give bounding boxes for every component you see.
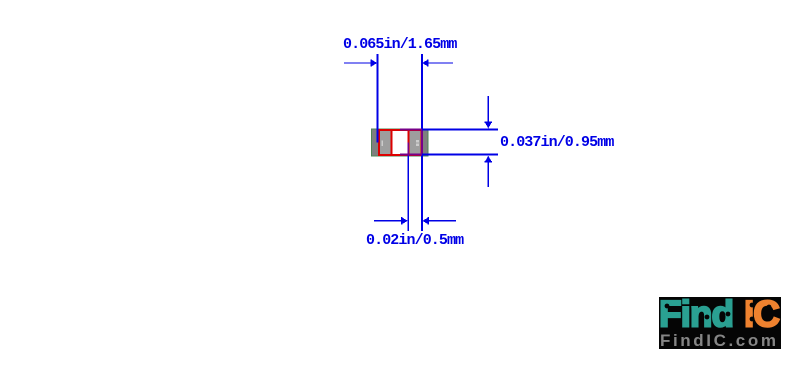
red pad edge at x=408.4 bbox=[407, 130, 409, 155]
extension line gap (x=408.4) purple overlap bbox=[407, 143, 409, 156]
bottom dimension line right segment bbox=[428, 220, 456, 222]
top dimension line left segment bbox=[344, 62, 371, 64]
height extension line top (purple over body, blue to right) bbox=[400, 128, 422, 130]
red pad edge at x=391.5 bbox=[391, 130, 393, 155]
extension line right overlap body (purple) bbox=[421, 129, 423, 155]
bottom dimension left arrowhead bbox=[402, 217, 408, 224]
logo circuit dots bbox=[665, 304, 670, 309]
top dimension line right segment bbox=[428, 62, 453, 64]
component body outline (red) bbox=[379, 130, 422, 155]
extension line left (x=377.4) bbox=[376, 54, 378, 143]
height dim bottom arrow stem bbox=[487, 162, 489, 187]
dimension label 0.02in/0.5mm bbox=[366, 234, 463, 248]
bottom dimension line left segment bbox=[374, 220, 402, 222]
pad number 1 bbox=[382, 141, 384, 146]
height dim bottom arrowhead bbox=[485, 156, 492, 162]
bottom dimension right arrowhead bbox=[422, 217, 428, 224]
courtyard outline (green) with gray fill bbox=[372, 129, 429, 156]
svg-text:Find: Find bbox=[659, 297, 733, 335]
FindIC logo bbox=[659, 297, 781, 349]
gap between pads bbox=[393, 131, 408, 155]
extension line gap below body bbox=[407, 155, 409, 231]
pad 1 bbox=[379, 130, 392, 156]
svg-text:FindIC.com: FindIC.com bbox=[660, 331, 779, 349]
pad 2 bbox=[409, 130, 423, 156]
svg-text:IC: IC bbox=[744, 297, 779, 335]
pad number 2 bbox=[416, 140, 419, 142]
extension line right below body bbox=[421, 155, 423, 231]
height extension line bottom bbox=[400, 154, 422, 156]
logo black background bbox=[659, 297, 781, 349]
top dimension left arrowhead bbox=[371, 60, 377, 67]
extension line right (x=421.8) bbox=[421, 54, 423, 129]
dimension label 0.037in/0.95mm bbox=[500, 136, 613, 150]
height dim top arrow stem bbox=[487, 96, 489, 122]
dimension label 0.065in/1.65mm bbox=[343, 38, 456, 52]
top dimension right arrowhead bbox=[422, 60, 428, 67]
height dim top arrowhead bbox=[485, 122, 492, 124]
